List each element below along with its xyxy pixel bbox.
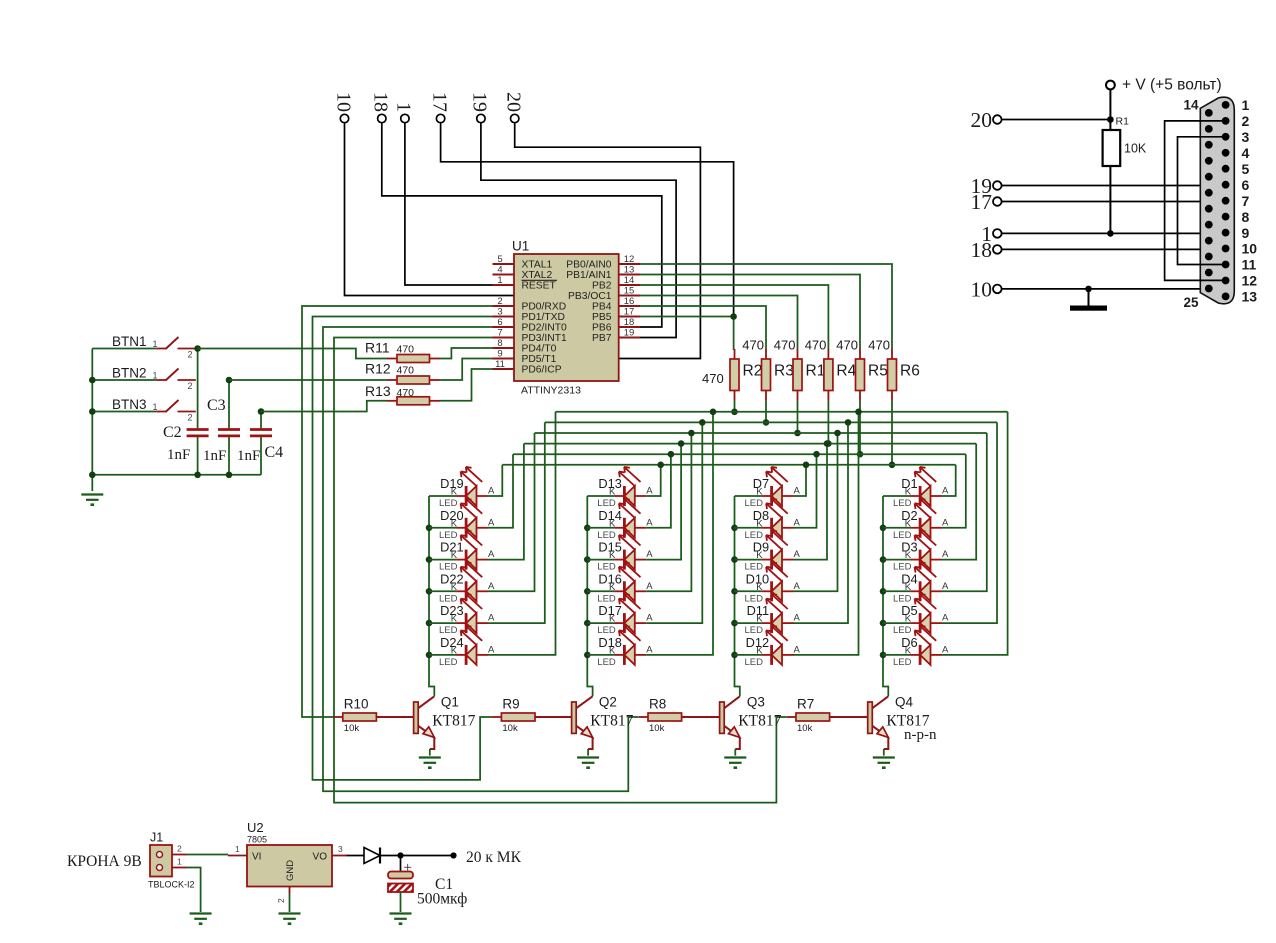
svg-text:PD0/RXD: PD0/RXD (522, 302, 567, 313)
svg-text:470: 470 (397, 365, 415, 377)
svg-text:C4: C4 (265, 444, 284, 461)
wire anode D3 to bus row 4 (942, 444, 976, 560)
ground (DB25 pin 10/25) (1070, 289, 1107, 311)
svg-text:7: 7 (497, 327, 502, 338)
terminal +V (+5 volt) (1106, 77, 1222, 94)
node 17 (LPT terminal top-left) (428, 92, 450, 123)
svg-text:A: A (942, 549, 949, 560)
wire anode D2 to bus row 5 (942, 454, 966, 528)
svg-text:R2: R2 (743, 363, 763, 380)
svg-text:LED: LED (597, 657, 616, 668)
svg-text:470: 470 (702, 371, 724, 386)
svg-text:4: 4 (1242, 145, 1250, 161)
transistor Q4 KT817 (868, 695, 930, 756)
wire DB25 pin3 to pin11 bracket (1178, 137, 1226, 265)
svg-text:470: 470 (774, 338, 796, 353)
svg-text:18: 18 (971, 238, 993, 262)
svg-text:КТ817: КТ817 (738, 712, 781, 729)
svg-text:2: 2 (497, 296, 502, 307)
wire terminal 19 to U1 PB7 pin 19 (481, 123, 676, 338)
svg-text:11: 11 (1242, 257, 1257, 273)
svg-text:9: 9 (497, 348, 502, 359)
svg-text:A: A (794, 549, 801, 560)
wire terminal 1 to U1 RESET pin 1 (405, 123, 493, 285)
svg-text:1: 1 (1242, 97, 1250, 113)
svg-text:R5: R5 (868, 363, 888, 380)
svg-text:K: K (756, 614, 763, 625)
svg-text:R8: R8 (649, 697, 666, 712)
wire anode bus row 3 (535, 432, 987, 434)
svg-text:470: 470 (397, 387, 415, 399)
wire U1 PD0 to R10 (302, 306, 493, 717)
svg-text:13: 13 (1242, 289, 1258, 305)
wire anode bus row 5 (513, 453, 966, 455)
LED D12 (735, 626, 801, 668)
svg-text:ATTINY2313: ATTINY2313 (521, 385, 581, 397)
svg-text:PB4: PB4 (592, 302, 612, 313)
connector J1 TBLOCK-I2 (148, 831, 195, 890)
wire anode D1 to bus row 6 (942, 465, 956, 496)
wire anode D20 to bus row 5 (488, 454, 513, 528)
svg-text:1nF: 1nF (237, 448, 260, 464)
DB25 pins right column (1-13) (1222, 101, 1230, 300)
svg-text:A: A (942, 486, 949, 497)
LED D20 (429, 499, 495, 541)
svg-text:A: A (794, 581, 801, 592)
svg-text:K: K (905, 487, 912, 498)
resistor R7 10k (786, 697, 868, 735)
svg-text:PB2: PB2 (592, 281, 612, 292)
wire anode D10 to bus row 3 (794, 430, 841, 592)
svg-text:6: 6 (1242, 177, 1250, 193)
svg-text:2: 2 (177, 844, 182, 854)
svg-text:A: A (942, 517, 949, 528)
svg-text:U2: U2 (247, 820, 264, 835)
svg-text:10: 10 (971, 277, 993, 301)
svg-text:2: 2 (188, 413, 193, 423)
svg-text:A: A (646, 613, 653, 624)
svg-text:K: K (905, 550, 912, 561)
svg-text:K: K (609, 582, 616, 593)
svg-text:K: K (756, 518, 763, 529)
resistor R9 10k (492, 697, 572, 735)
svg-text:7805: 7805 (247, 835, 267, 845)
LED D7 (735, 467, 801, 509)
svg-text:1nF: 1nF (203, 448, 226, 464)
wire cathode rail column 4 (883, 496, 888, 696)
svg-text:J1: J1 (150, 831, 163, 845)
wire cathode rail column 3 (735, 496, 740, 696)
wire anode D11 to bus row 2 (794, 419, 852, 623)
wire anode bus row 2 (545, 421, 997, 423)
svg-text:470: 470 (805, 338, 827, 353)
wire anode D6 to bus row 1 (942, 412, 1008, 655)
svg-text:R4: R4 (836, 363, 856, 380)
wire anode D16 to bus row 3 (646, 430, 694, 592)
svg-text:14: 14 (624, 275, 635, 286)
switch BTN3 (92, 397, 196, 423)
ground (Q1 emitter) (419, 758, 441, 768)
svg-text:18: 18 (370, 92, 392, 112)
svg-text:A: A (488, 581, 495, 592)
svg-text:XTAL2: XTAL2 (522, 270, 553, 281)
svg-text:K: K (756, 645, 763, 656)
svg-text:C2: C2 (163, 424, 182, 441)
svg-text:A: A (942, 581, 949, 592)
wire terminal 19 to connector (1002, 185, 1226, 187)
svg-text:1: 1 (153, 339, 158, 349)
wire J1 pin1 to ground (187, 868, 201, 913)
svg-text:R9: R9 (502, 697, 519, 712)
svg-text:20 к МК: 20 к МК (466, 849, 522, 866)
terminal 20 (DB25 side) (971, 108, 1002, 132)
svg-text:BTN1: BTN1 (112, 334, 147, 349)
switch BTN1 (92, 334, 196, 360)
svg-text:XTAL1: XTAL1 (522, 260, 553, 271)
svg-text:PD5/T1: PD5/T1 (522, 354, 557, 365)
svg-text:A: A (794, 644, 801, 655)
LED D2 (883, 499, 949, 541)
svg-text:U1: U1 (512, 239, 529, 254)
svg-text:K: K (451, 645, 458, 656)
wire anode D12 to bus row 1 (794, 409, 862, 655)
svg-text:K: K (609, 645, 616, 656)
wire anode D4 to bus row 3 (942, 433, 987, 591)
svg-text:Q4: Q4 (895, 695, 914, 710)
wire terminal 17 to R2 node (441, 123, 734, 317)
resistor R3 470 (vertical) (742, 338, 794, 426)
svg-text:R10: R10 (344, 697, 369, 712)
svg-text:7: 7 (1242, 193, 1250, 209)
svg-text:1: 1 (153, 402, 158, 412)
svg-text:K: K (905, 614, 912, 625)
wire terminal 10 to connector (1002, 288, 1209, 290)
svg-text:16: 16 (624, 296, 635, 307)
svg-text:1: 1 (177, 857, 182, 867)
svg-text:Q1: Q1 (441, 695, 459, 710)
wire terminal 18 to U1 PB6 pin 18 (382, 123, 662, 327)
wire anode D19 to bus row 6 (488, 465, 502, 496)
wire cathode rail column 2 (587, 496, 592, 696)
DB25 pin numbers 1-13 (1242, 97, 1258, 305)
wire terminal 20 to U1 VCC pin 20 (515, 123, 701, 359)
resistor R1 470 (vertical) (774, 338, 826, 437)
wire U1 PB1 to R5 (640, 275, 860, 350)
capacitor C3 1nF (218, 380, 240, 475)
svg-text:10k: 10k (649, 723, 665, 734)
svg-text:K: K (609, 487, 616, 498)
svg-text:17: 17 (624, 306, 635, 317)
svg-text:11: 11 (495, 359, 505, 370)
svg-text:LED: LED (439, 657, 458, 668)
svg-text:1: 1 (393, 102, 415, 112)
wire anode D14 to bus row 5 (646, 451, 674, 528)
wire anode D23 to bus row 2 (488, 422, 545, 623)
svg-text:6: 6 (497, 317, 502, 328)
svg-text:K: K (756, 582, 763, 593)
svg-text:17: 17 (428, 92, 450, 112)
svg-text:K: K (905, 518, 912, 529)
wire U1 PB0 to R6 (640, 264, 892, 349)
svg-text:R1: R1 (806, 363, 826, 380)
svg-text:A: A (646, 486, 653, 497)
svg-text:4: 4 (497, 264, 502, 275)
terminal 17 (DB25 side) (971, 190, 1002, 214)
LED D4 (883, 562, 949, 604)
svg-text:3: 3 (1242, 129, 1250, 145)
LED D3 (883, 531, 949, 573)
svg-text:A: A (646, 644, 653, 655)
svg-text:A: A (794, 613, 801, 624)
svg-text:A: A (942, 613, 949, 624)
svg-text:470: 470 (742, 338, 764, 353)
LED D24 (429, 626, 495, 668)
svg-text:K: K (451, 487, 458, 498)
wire anode D15 to bus row 4 (646, 440, 684, 559)
svg-text:Q2: Q2 (599, 695, 617, 710)
svg-text:K: K (451, 550, 458, 561)
svg-text:PB6: PB6 (592, 323, 612, 334)
svg-text:A: A (488, 517, 495, 528)
ground (C1) (390, 914, 412, 924)
wire anode D9 to bus row 4 (794, 440, 831, 559)
wire diode to 20 k MK (380, 855, 454, 857)
LED D8 (735, 499, 801, 541)
wire U2 GND to ground (289, 894, 291, 912)
resistor R1 10K (pullup) (1103, 130, 1147, 233)
LED D23 (429, 594, 495, 636)
svg-text:R1: R1 (1116, 116, 1130, 128)
ground (U2) (279, 914, 301, 924)
svg-text:20: 20 (503, 92, 525, 112)
wire U1 PB2 to R4 (640, 285, 828, 349)
svg-text:A: A (646, 581, 653, 592)
svg-text:LED: LED (893, 657, 912, 668)
capacitor C1 500uF (electrolytic) (388, 856, 413, 913)
svg-text:PD6/ICP: PD6/ICP (522, 365, 562, 376)
connector DB25 body (1200, 97, 1234, 304)
svg-text:3: 3 (338, 844, 343, 854)
resistor R8 10k (638, 697, 719, 735)
wire U1 PB3 to R1 (640, 296, 798, 350)
svg-text:K: K (451, 614, 458, 625)
terminal 10 (DB25 side) (971, 277, 1002, 301)
capacitor C4 1nF (250, 412, 272, 475)
transistor Q3 KT817 (720, 695, 782, 756)
wire terminal 18 to connector (1002, 248, 1226, 250)
svg-text:K: K (756, 550, 763, 561)
svg-text:1: 1 (235, 844, 240, 854)
svg-text:TBLOCK-I2: TBLOCK-I2 (148, 880, 195, 890)
wire anode D21 to bus row 4 (488, 444, 524, 560)
LED D21 (429, 531, 495, 573)
wire anode D22 to bus row 3 (488, 433, 535, 591)
switch BTN2 (92, 366, 196, 392)
svg-text:18: 18 (624, 317, 635, 328)
svg-text:+ V (+5 вольт): + V (+5 вольт) (1122, 77, 1222, 94)
ground (Q2 emitter) (577, 758, 599, 768)
transistor Q1 KT817 (414, 695, 476, 756)
LED D18 (587, 626, 653, 668)
node 19 (LPT terminal top-left) (469, 92, 491, 123)
wire U1 PB5 to R2 (node with terminal 17) (640, 316, 734, 318)
ground (Q4 emitter) (873, 758, 895, 768)
node 20 (LPT terminal top-left) (503, 92, 525, 123)
wire U1 PD1 to R9 (313, 317, 493, 780)
svg-text:PB0/AIN0: PB0/AIN0 (566, 260, 611, 271)
svg-text:PD2/INT0: PD2/INT0 (522, 323, 567, 334)
ground (Q3 emitter) (724, 758, 746, 768)
junction dots left rail (89, 345, 264, 478)
wire cathode rail column 1 (429, 496, 434, 696)
transistor Q2 KT817 (572, 695, 634, 756)
svg-text:BTN2: BTN2 (112, 366, 147, 381)
svg-text:R6: R6 (900, 363, 920, 380)
svg-text:C3: C3 (207, 397, 226, 414)
LED D17 (587, 594, 653, 636)
resistor R13 470 (261, 369, 493, 412)
svg-text:A: A (646, 517, 653, 528)
svg-text:PD3/INT1: PD3/INT1 (522, 333, 567, 344)
LED D19 (429, 467, 495, 509)
svg-text:12: 12 (624, 254, 635, 265)
terminal 18 (DB25 side) (971, 238, 1002, 262)
resistor R10 10k (333, 697, 414, 735)
wire capacitor bottom rail (92, 474, 261, 476)
svg-text:A: A (488, 486, 495, 497)
wire terminal 20 to connector (1002, 119, 1110, 121)
microcontroller U1 ATTINY2313 (493, 239, 641, 397)
svg-text:PD1/TXD: PD1/TXD (522, 312, 566, 323)
svg-text:K: K (756, 487, 763, 498)
svg-text:K: K (451, 582, 458, 593)
svg-text:A: A (488, 549, 495, 560)
svg-text:K: K (609, 518, 616, 529)
svg-text:RESET: RESET (522, 281, 557, 292)
svg-text:2: 2 (1242, 113, 1250, 129)
wire anode D18 to bus row 1 (646, 409, 716, 655)
terminal 1 (DB25 side) (981, 222, 1001, 246)
svg-text:1: 1 (153, 371, 158, 381)
wire U1 PD2 to R8 (323, 327, 638, 791)
svg-text:2: 2 (188, 381, 193, 391)
LED D15 (587, 531, 653, 573)
resistor R12 470 (229, 359, 493, 385)
svg-text:10k: 10k (344, 723, 360, 734)
svg-text:Q3: Q3 (747, 695, 765, 710)
svg-text:10k: 10k (502, 723, 518, 734)
LED D16 (587, 562, 653, 604)
svg-text:17: 17 (971, 190, 993, 214)
svg-text:PB3/OC1: PB3/OC1 (568, 291, 612, 302)
wire anode bus row 4 (524, 443, 976, 445)
wire U1 PB4 to R3 (640, 306, 766, 349)
wire anode D5 to bus row 2 (942, 422, 997, 623)
svg-text:R3: R3 (774, 363, 794, 380)
svg-text:470: 470 (836, 338, 858, 353)
svg-text:BTN3: BTN3 (112, 397, 147, 412)
svg-text:10K: 10K (1124, 142, 1147, 156)
svg-text:PB1/AIN1: PB1/AIN1 (566, 270, 611, 281)
node output dots (397, 852, 456, 858)
svg-text:КТ817: КТ817 (590, 712, 633, 729)
ground (buttons/caps) (81, 495, 103, 505)
LED D5 (883, 594, 949, 636)
wire anode bus row 6 (502, 464, 955, 466)
svg-text:19: 19 (624, 327, 635, 338)
svg-text:LED: LED (745, 657, 764, 668)
wire DB25 pin2 to pin12 bracket (1165, 121, 1226, 281)
resistor R5 470 (vertical) (836, 338, 888, 458)
LED D14 (587, 499, 653, 541)
svg-text:K: K (451, 518, 458, 529)
svg-text:2: 2 (276, 898, 286, 903)
svg-text:12: 12 (1242, 273, 1258, 289)
LED D13 (587, 467, 653, 509)
svg-text:9: 9 (1242, 225, 1250, 241)
svg-text:КРОНА 9В: КРОНА 9В (67, 853, 142, 870)
svg-text:10: 10 (332, 92, 354, 112)
wire terminal 17 to connector (1002, 201, 1226, 203)
svg-text:VO: VO (313, 852, 328, 863)
wire left ground rail (91, 349, 93, 492)
svg-text:PB5: PB5 (592, 312, 612, 323)
svg-text:2: 2 (188, 350, 193, 360)
capacitor C2 1nF (187, 349, 209, 475)
svg-text:20: 20 (971, 108, 993, 132)
wire terminal 10 to U1 GND pin (345, 123, 514, 296)
wire U1 PD3 to R7 (334, 338, 786, 803)
svg-text:25: 25 (1183, 295, 1199, 310)
svg-text:K: K (609, 614, 616, 625)
svg-text:K: K (609, 550, 616, 561)
svg-text:R12: R12 (365, 361, 391, 377)
svg-text:GND: GND (285, 860, 296, 881)
svg-text:14: 14 (1183, 98, 1199, 113)
LED D9 (735, 531, 801, 573)
wire anode D17 to bus row 2 (646, 419, 705, 623)
resistor R2 470 (vertical) (702, 349, 762, 415)
svg-text:A: A (646, 549, 653, 560)
svg-text:A: A (794, 486, 801, 497)
wire +V to R1 top (1109, 90, 1111, 131)
wire anode bus row 1 (556, 411, 1008, 413)
svg-text:1nF: 1nF (167, 447, 190, 463)
svg-text:VI: VI (252, 852, 261, 863)
svg-text:5: 5 (1242, 161, 1250, 177)
svg-text:КТ817: КТ817 (432, 712, 475, 729)
svg-text:PD4/T0: PD4/T0 (522, 344, 557, 355)
LED D22 (429, 562, 495, 604)
wire terminal 1 to connector (1002, 232, 1226, 234)
DB25 pins left column (14-25) (1205, 109, 1213, 292)
diode D (power) (347, 848, 381, 864)
wire anode D24 to bus row 1 (488, 412, 556, 655)
wire anode D13 to bus row 6 (646, 462, 664, 497)
svg-text:PB7: PB7 (592, 333, 612, 344)
svg-text:10k: 10k (797, 723, 813, 734)
svg-text:10: 10 (1242, 241, 1258, 257)
LED D1 (883, 467, 949, 509)
svg-text:8: 8 (1242, 209, 1250, 225)
node 10 (LPT terminal top-left) (332, 92, 354, 123)
svg-text:A: A (488, 613, 495, 624)
node 18 (LPT terminal top-left) (370, 92, 392, 123)
resistor R11 470 (198, 340, 493, 363)
LED D10 (735, 562, 801, 604)
svg-text:15: 15 (624, 285, 635, 296)
LED D6 (883, 626, 949, 668)
